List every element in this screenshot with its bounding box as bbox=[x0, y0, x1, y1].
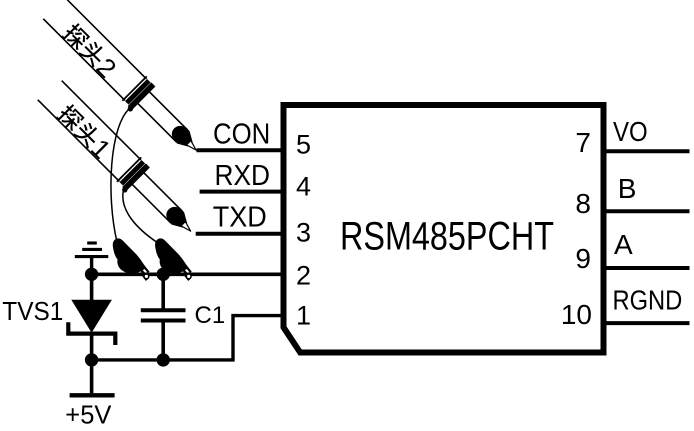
svg-text:9: 9 bbox=[575, 243, 591, 274]
svg-text:10: 10 bbox=[561, 299, 592, 330]
svg-text:CON: CON bbox=[213, 119, 270, 151]
svg-text:TXD: TXD bbox=[213, 201, 267, 233]
svg-text:C1: C1 bbox=[195, 302, 226, 329]
svg-text:2: 2 bbox=[296, 261, 311, 291]
svg-text:4: 4 bbox=[296, 172, 311, 202]
svg-text:3: 3 bbox=[296, 218, 311, 248]
svg-text:8: 8 bbox=[575, 188, 591, 219]
svg-text:7: 7 bbox=[575, 127, 591, 158]
svg-text:+5V: +5V bbox=[65, 402, 111, 430]
svg-text:RSM485PCHT: RSM485PCHT bbox=[340, 215, 554, 259]
svg-text:B: B bbox=[618, 173, 637, 204]
svg-text:1: 1 bbox=[296, 301, 311, 331]
svg-text:RGND: RGND bbox=[613, 285, 683, 316]
svg-text:TVS1: TVS1 bbox=[2, 296, 63, 326]
svg-text:VO: VO bbox=[613, 116, 648, 147]
svg-text:A: A bbox=[614, 229, 633, 260]
svg-text:5: 5 bbox=[296, 130, 311, 160]
svg-text:RXD: RXD bbox=[215, 160, 271, 192]
